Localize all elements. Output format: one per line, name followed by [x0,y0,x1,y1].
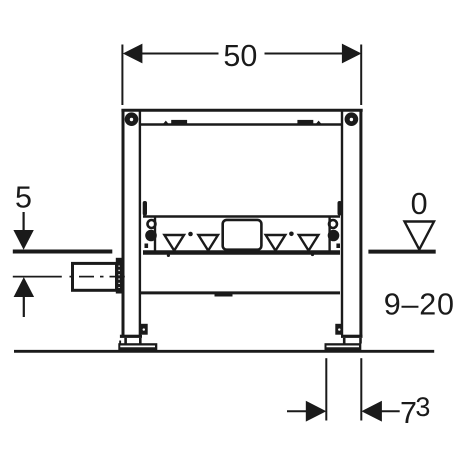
svg-text:5: 5 [15,181,32,215]
svg-text:0: 0 [411,187,428,221]
svg-text:50: 50 [223,39,257,73]
svg-text:9–20: 9–20 [384,288,455,322]
svg-text:3: 3 [415,392,430,422]
